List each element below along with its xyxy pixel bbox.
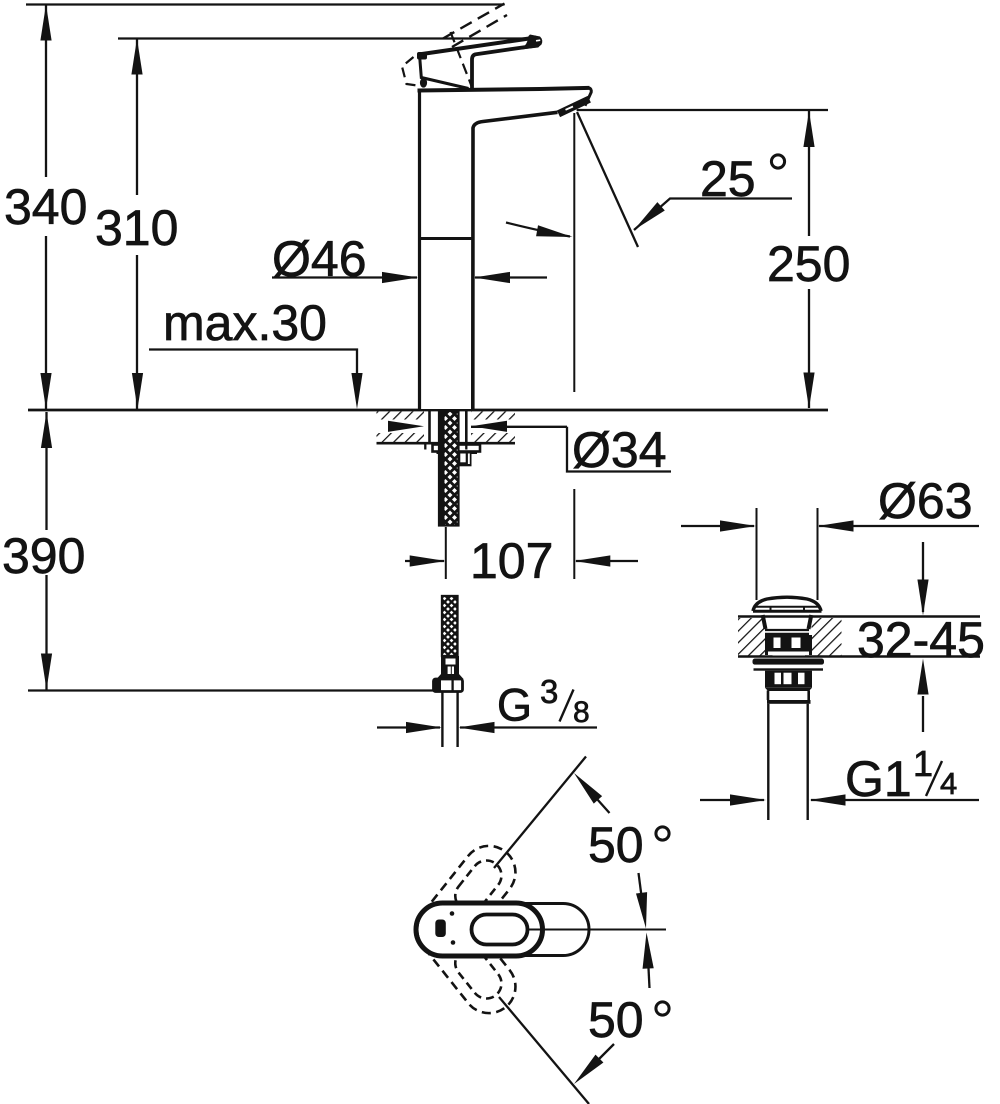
- handle raised position dashed rear edge: [451, 32, 472, 86]
- label G 3/8: [497, 673, 590, 731]
- mounting washer: [433, 445, 481, 452]
- hose end tube: [442, 692, 457, 748]
- top view centre line: [528, 929, 667, 931]
- drain flange: [753, 659, 825, 671]
- svg-text:107: 107: [470, 533, 553, 589]
- svg-text:32-45: 32-45: [857, 612, 985, 668]
- dimension max.30 leader: [149, 350, 363, 410]
- dimension 107 extension line: [573, 489, 575, 579]
- dimension 107: [405, 555, 638, 566]
- drain nut taper: [765, 688, 812, 691]
- svg-text:G: G: [497, 680, 532, 731]
- faucet body joint line: [420, 237, 473, 240]
- countertop surface line: [28, 409, 828, 412]
- spout outlet tip: [559, 99, 590, 114]
- drain lock nut: [765, 671, 812, 688]
- dimension diameter 63: [681, 520, 979, 531]
- svg-text:Ø34: Ø34: [572, 422, 667, 478]
- flexible hose braid: [442, 596, 458, 656]
- top view lever oval: [472, 915, 528, 945]
- svg-text:25: 25: [700, 151, 756, 207]
- washer band: [437, 451, 478, 454]
- countertop cross-section hatch: [377, 412, 516, 443]
- drain tailpipe: [768, 704, 807, 820]
- drain counter hatch right: [812, 618, 842, 656]
- faucet body top edge and spout top: [418, 88, 590, 91]
- countertop bottom line: [377, 442, 516, 445]
- top view handle outline thick: [416, 903, 543, 956]
- faucet mounting tube walls in hole: [428, 411, 431, 443]
- drain thread band: [767, 700, 811, 704]
- svg-text:Ø46: Ø46: [272, 231, 367, 287]
- hole edge ticks below counter: [424, 444, 426, 450]
- svg-text:Ø63: Ø63: [878, 473, 973, 529]
- dimension G 3/8: [377, 722, 597, 733]
- dimension 310 top reference line: [118, 37, 538, 39]
- label diameter 34 leader: [567, 427, 671, 472]
- faucet body left edge: [418, 90, 421, 409]
- svg-text:4: 4: [940, 766, 957, 801]
- drain body in counter: [765, 635, 812, 656]
- top view handle rotated up dashed: [406, 835, 526, 967]
- drain cap rim: [753, 606, 822, 611]
- stream axis extension line: [573, 113, 575, 392]
- drain counter section bottom line: [738, 655, 980, 658]
- dimension 340 top reference line: [26, 3, 505, 5]
- top view body outline: [417, 904, 589, 956]
- handle lever top edge: [419, 38, 537, 55]
- handle lever underside and neck: [472, 45, 539, 89]
- rotation line upper 50 deg: [494, 757, 586, 869]
- faucet body fill: [420, 46, 558, 409]
- label G1 1/4: [845, 743, 957, 807]
- hose ferrule: [437, 656, 464, 679]
- svg-text:max.30: max.30: [163, 295, 327, 351]
- svg-text:8: 8: [573, 696, 590, 729]
- svg-text:50: 50: [588, 817, 644, 873]
- drain counter section top line: [738, 615, 980, 618]
- 25 deg leader: [630, 199, 792, 235]
- 25 deg angle arc: [506, 223, 570, 237]
- handle lever tip: [521, 35, 542, 50]
- lower 50 deg leader arrow: [570, 1044, 614, 1088]
- handle raised position dashed base: [402, 57, 421, 86]
- svg-text:50: 50: [588, 992, 644, 1048]
- dimension diameter 34 arrows: [388, 421, 567, 432]
- svg-text:G1: G1: [845, 751, 912, 807]
- dimension 250 top reference line: [577, 109, 828, 111]
- drain extension lines: [756, 508, 758, 600]
- drain cap dome: [753, 597, 821, 611]
- handle base left edge: [420, 55, 469, 89]
- upper 50 deg leader arrow: [570, 769, 610, 813]
- svg-text:310: 310: [95, 200, 178, 256]
- top view handle rotated down dashed: [406, 892, 526, 1024]
- stream direction line 25 deg: [577, 112, 638, 247]
- handle pivot dot: [420, 78, 427, 88]
- svg-text:250: 250: [767, 236, 850, 292]
- dimension 390 bottom reference line: [28, 689, 433, 691]
- dimension 250: [803, 111, 814, 409]
- svg-text:340: 340: [4, 179, 87, 235]
- drain neck: [763, 615, 812, 634]
- spout tip white sliver: [566, 107, 574, 110]
- handle base corner block: [417, 52, 427, 60]
- dimension 390: [41, 412, 52, 690]
- dimension diameter 46: [272, 272, 547, 283]
- faucet body right edge: [473, 112, 558, 409]
- threaded shank: [439, 411, 459, 526]
- dimension 340 extension line: [40, 5, 51, 410]
- centre line below shank: [445, 527, 447, 579]
- handle raised position dashed bottom edge: [452, 15, 507, 47]
- mounting nut: [443, 454, 472, 467]
- top view aerator mark: [435, 920, 446, 938]
- drain counter hatch left: [738, 618, 765, 656]
- angle arrows at centre line: [636, 873, 654, 988]
- dimension 32-45: [917, 542, 928, 732]
- dimension G1 1/4: [700, 794, 979, 805]
- handle raised position dashed top edge: [443, 4, 505, 39]
- svg-text:1: 1: [913, 743, 933, 784]
- svg-text:390: 390: [2, 528, 85, 584]
- top view dots: [450, 911, 455, 916]
- dimension 310 extension line: [131, 39, 143, 410]
- rotation line lower 50 deg: [499, 997, 589, 1104]
- drain smooth section: [768, 691, 809, 701]
- hose hex nut: [434, 679, 463, 692]
- svg-text:3: 3: [540, 673, 558, 710]
